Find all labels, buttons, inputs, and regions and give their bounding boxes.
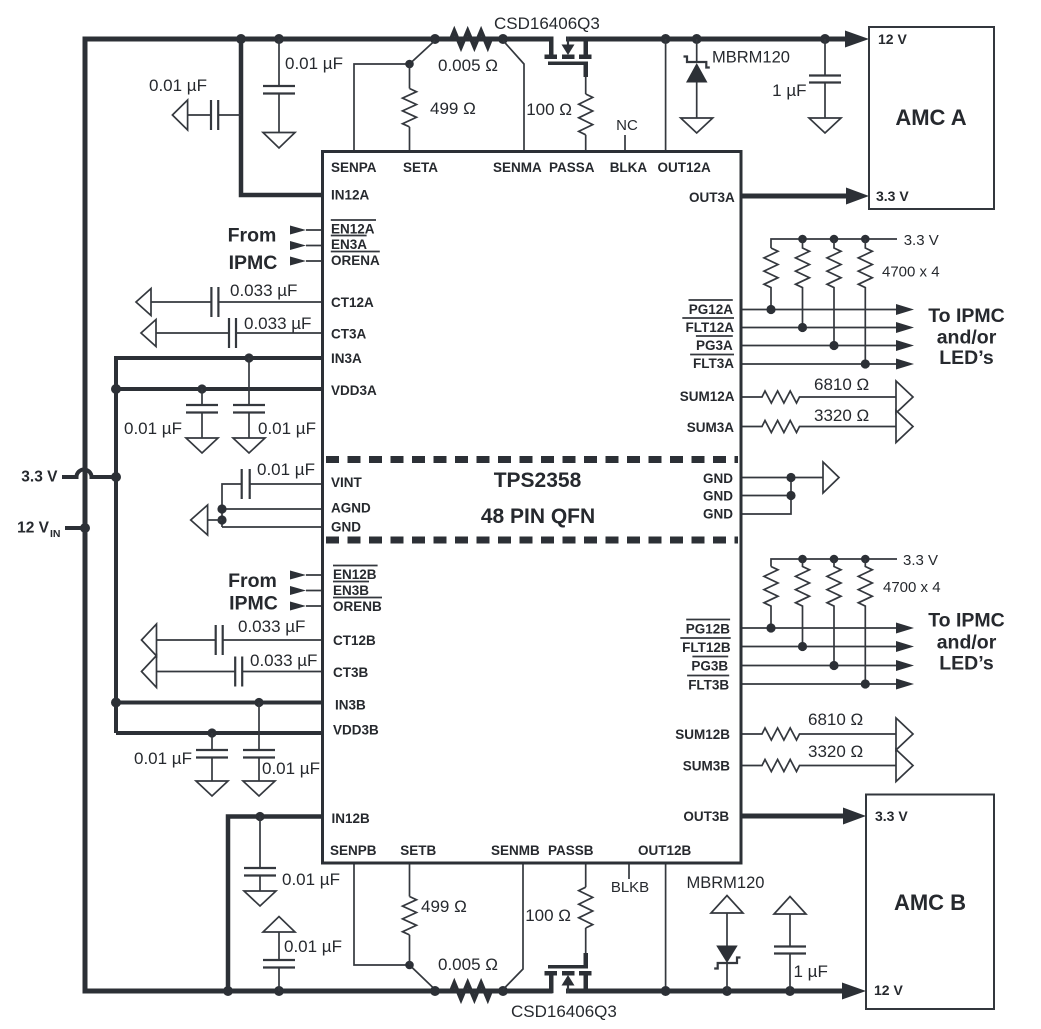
node junction on top bus at bypass cap <box>274 34 284 44</box>
divider dashed line (upper) <box>326 456 738 463</box>
svg-text:NC: NC <box>616 117 638 134</box>
divider dashed line (lower) <box>326 537 738 544</box>
ground below VDD3A cap <box>186 438 218 453</box>
node junction FLT3B pullup <box>861 679 870 688</box>
svg-text:0.01 µF: 0.01 µF <box>285 54 343 73</box>
node junction pullup4 top (A) <box>861 235 870 244</box>
arrow open SUM12A <box>896 381 913 413</box>
svg-text:499 Ω: 499 Ω <box>421 897 467 916</box>
wire FLT3B row <box>741 683 897 685</box>
wire SUM12A row with 6810 resistor <box>741 391 896 403</box>
transistor Q1 CSD16406Q3 (top FET) <box>545 37 592 78</box>
svg-text:1 µF: 1 µF <box>794 962 828 981</box>
arrow open up above bottom 0.01uF cap <box>263 917 295 933</box>
capacitor 0.01uF on IN3A <box>233 358 265 438</box>
arrow open SUM12B <box>896 718 913 750</box>
wire SENPB sense tap: drop, horizontal, diagonal <box>354 863 435 990</box>
wire 12V bottom bus from FET to AMC B <box>566 989 843 994</box>
wire SUM12B row with 6810 resistor <box>741 728 896 740</box>
AMC A box <box>869 27 994 209</box>
svg-text:CT12B: CT12B <box>333 633 376 648</box>
resistor 4700 pullup 2 (B) <box>796 559 810 647</box>
diode D2 MBRM120 (B side schottky) <box>714 913 740 991</box>
svg-text:IPMC: IPMC <box>229 593 278 615</box>
svg-text:SENMA: SENMA <box>493 160 542 175</box>
node junction FLT3A pullup <box>861 359 870 368</box>
svg-text:0.01 µF: 0.01 µF <box>257 460 315 479</box>
wire BLKA NC stub <box>624 135 626 151</box>
node junction IN12B cap tap <box>255 812 264 821</box>
node junction pullup2 top (B) <box>798 555 807 564</box>
svg-text:OUT3B: OUT3B <box>683 809 729 824</box>
capacitor 0.01uF on VINT <box>222 469 323 527</box>
transistor Q2 CSD16406Q3 (bottom FET) <box>545 953 592 994</box>
arrow open left CT3A <box>141 320 156 347</box>
wire OUT3A to AMC A <box>741 194 847 199</box>
svg-text:To IPMC: To IPMC <box>928 610 1005 632</box>
capacitor 0.01uF on VDD3A <box>186 389 218 438</box>
svg-text:MBRM120: MBRM120 <box>712 49 790 67</box>
arrow FLT3B to IPMC <box>896 679 914 690</box>
wire FET gate to 100 ohm (A) <box>585 77 587 94</box>
resistor 100 ohm (B) <box>579 863 593 928</box>
svg-text:and/or: and/or <box>937 632 997 654</box>
svg-text:12 V: 12 V <box>17 520 50 537</box>
wire IN12B from pin to bottom bus <box>228 817 323 992</box>
node junction 12V rail at input <box>80 523 90 533</box>
svg-text:MBRM120: MBRM120 <box>687 874 765 892</box>
wire EN3B <box>306 590 323 592</box>
wire VDD3B <box>116 731 323 735</box>
svg-text:ORENB: ORENB <box>333 599 382 614</box>
resistor 0.005 ohm (A side sense) <box>451 31 491 47</box>
node junction on top bus right end of 0.005 ohm <box>498 34 508 44</box>
wire OUT3B to AMC B <box>741 814 844 819</box>
svg-text:FLT12B: FLT12B <box>682 640 731 655</box>
svg-text:SETA: SETA <box>403 160 438 175</box>
wire PG12B row <box>741 627 897 629</box>
wire IN3B <box>116 701 323 705</box>
node junction on top bus at IN12A feed <box>236 34 246 44</box>
wire GND row 1 <box>741 477 823 479</box>
arrow FLT3A to IPMC <box>896 359 914 370</box>
op-amp U1 TPS2358 IC body <box>323 152 742 864</box>
svg-text:0.033 µF: 0.033 µF <box>250 651 317 670</box>
resistor 4700 pullup 4 (A) <box>858 239 872 364</box>
svg-text:From: From <box>228 225 277 247</box>
svg-text:OUT3A: OUT3A <box>689 190 735 205</box>
node junction IN12B on bottom bus <box>223 986 233 996</box>
svg-text:0.01 µF: 0.01 µF <box>262 759 320 778</box>
node junction PG12B pullup <box>766 623 775 632</box>
svg-text:0.01 µF: 0.01 µF <box>124 419 182 438</box>
node junction bottom bus at bypass cap <box>274 986 284 996</box>
resistor 499 ohm (B) <box>403 863 417 965</box>
resistor 4700 pullup 4 (B) <box>858 559 872 684</box>
node junction pullup2 top (A) <box>798 235 807 244</box>
svg-text:CT3A: CT3A <box>331 327 367 342</box>
svg-text:PG3B: PG3B <box>691 659 728 674</box>
node junction IN3B on rail <box>111 698 121 708</box>
ground below MBRM120 (A) <box>681 118 713 133</box>
arrow open left on top-left 0.01uF cap <box>172 100 187 130</box>
node junction SETB/SENPB tap <box>405 961 414 970</box>
svg-text:0.01 µF: 0.01 µF <box>258 419 316 438</box>
node junction top bus at MBRM120 <box>692 34 702 44</box>
capacitor 1uF (B) <box>774 914 806 991</box>
arrow From IPMC EN12B <box>290 571 306 580</box>
svg-text:OUT12B: OUT12B <box>638 843 692 858</box>
capacitor 0.033uF on CT12B <box>157 625 323 655</box>
svg-text:OUT12A: OUT12A <box>658 160 712 175</box>
arrow From IPMC EN12A <box>290 226 306 235</box>
capacitor 0.033uF on CT12A <box>151 287 323 317</box>
wire PG12A row <box>741 309 897 311</box>
node junction VDD3A on rail <box>111 384 121 394</box>
arrow open SUM3A <box>896 411 913 443</box>
svg-text:PASSB: PASSB <box>548 843 594 858</box>
wire EN12B <box>306 574 323 576</box>
resistor 100 ohm (A) <box>579 94 593 151</box>
svg-text:BLKB: BLKB <box>611 879 649 896</box>
ground below VDD3B cap <box>196 781 228 796</box>
node junction bottom bus at MBRM120 <box>722 986 732 996</box>
svg-text:To IPMC: To IPMC <box>928 305 1005 327</box>
svg-text:3.3 V: 3.3 V <box>903 552 938 569</box>
node junction pullup4 top (B) <box>861 555 870 564</box>
capacitor 0.033uF on CT3A <box>156 318 323 348</box>
node junction PG3A pullup <box>829 341 838 350</box>
resistor 4700 pullup 3 (A) <box>827 239 841 346</box>
wire PG3A row <box>741 345 897 347</box>
svg-text:0.005 Ω: 0.005 Ω <box>438 955 498 974</box>
svg-text:FLT12A: FLT12A <box>685 320 734 335</box>
svg-text:3.3 V: 3.3 V <box>876 188 909 204</box>
diode D1 MBRM120 (A side schottky) <box>684 39 710 118</box>
svg-text:TPS2358: TPS2358 <box>494 469 582 492</box>
svg-text:BLKA: BLKA <box>610 160 648 175</box>
wire FET gate to 100 ohm (B) <box>585 928 587 953</box>
wire SENMB sense tap drop and diagonal <box>503 863 523 990</box>
svg-text:12 V: 12 V <box>874 982 903 998</box>
svg-text:EN3A: EN3A <box>331 237 367 252</box>
arrow From IPMC EN3A <box>290 241 306 250</box>
wire AGND <box>222 508 323 510</box>
svg-text:0.01 µF: 0.01 µF <box>149 76 207 95</box>
resistor 4700 pullup 3 (B) <box>827 559 841 666</box>
wire SENMA sense tap diagonal and drop <box>503 41 524 152</box>
arrow FLT12B to IPMC <box>896 641 914 652</box>
node junction GND rows 2-3 <box>786 491 795 500</box>
arrow open GND <box>823 462 839 493</box>
svg-text:CSD16406Q3: CSD16406Q3 <box>494 14 600 33</box>
node junction bottom bus right end of 0.005 ohm <box>498 986 508 996</box>
node junction PG3B pullup <box>829 661 838 670</box>
svg-text:VINT: VINT <box>331 475 363 490</box>
node junction IN3B cap tap <box>254 698 263 707</box>
arrow open SUM3B <box>896 750 913 782</box>
arrow FLT12A to IPMC <box>896 322 914 333</box>
node junction top bus at OUT12A <box>661 34 671 44</box>
arrow From IPMC ORENB <box>290 602 306 611</box>
arrow OUT3B into AMC B <box>843 808 866 825</box>
svg-text:CSD16406Q3: CSD16406Q3 <box>511 1002 617 1021</box>
svg-text:VDD3A: VDD3A <box>331 383 377 398</box>
svg-text:6810 Ω: 6810 Ω <box>814 375 869 394</box>
node junction pullup3 top (B) <box>830 555 839 564</box>
svg-text:0.01 µF: 0.01 µF <box>134 749 192 768</box>
wire ORENB <box>306 605 323 607</box>
svg-text:ORENA: ORENA <box>331 253 380 268</box>
wire SUM3B row with 3320 resistor <box>741 760 896 772</box>
svg-text:SETB: SETB <box>400 843 436 858</box>
node junction analog ground arrow <box>217 515 226 524</box>
node junction GND rows 1-2 <box>786 473 795 482</box>
svg-text:FLT3A: FLT3A <box>693 356 734 371</box>
wire to ground arrow <box>208 519 222 521</box>
svg-text:EN12B: EN12B <box>333 567 377 582</box>
wire 3.3V pullup rail (A) <box>771 239 897 248</box>
svg-text:3.3 V: 3.3 V <box>875 808 908 824</box>
node junction VDD3B cap tap <box>207 728 216 737</box>
ground below IN3B cap <box>243 781 275 796</box>
svg-text:3.3 V: 3.3 V <box>904 232 939 249</box>
wire SENPA sense tap: diagonal, horizontal, drop to pin <box>354 41 435 152</box>
wire ORENA <box>306 260 323 262</box>
node junction bottom bus at 1uF <box>785 986 795 996</box>
svg-text:From: From <box>228 570 277 592</box>
arrow open left AGND/GND <box>191 505 208 535</box>
node junction IN3A cap tap <box>244 353 253 362</box>
arrow From IPMC ORENA <box>290 257 306 266</box>
svg-text:FLT3B: FLT3B <box>688 677 729 692</box>
wire FLT12B row <box>741 646 897 648</box>
svg-text:0.005 Ω: 0.005 Ω <box>438 56 498 75</box>
wire FLT3A row <box>741 363 897 365</box>
arrow PG3A to IPMC <box>896 340 914 351</box>
wire 12V input stub <box>65 526 85 530</box>
node junction bottom bus at OUT12B <box>661 986 671 996</box>
arrow From IPMC EN3B <box>290 586 306 595</box>
node junction FLT12A pullup <box>798 323 807 332</box>
svg-text:0.01 µF: 0.01 µF <box>282 870 340 889</box>
wire 3.3V pullup rail (B) <box>771 559 897 567</box>
wire OUT12B from pin to bottom bus <box>665 863 667 991</box>
node junction SETA/SENPA tap <box>405 60 414 69</box>
wire PG3B row <box>741 665 897 667</box>
wire 12V bus: top segment, left rail, bottom segment <box>85 39 554 991</box>
wire IN12A from top bus to pin <box>241 39 323 195</box>
svg-text:SENPB: SENPB <box>330 843 377 858</box>
svg-text:SENPA: SENPA <box>331 160 377 175</box>
arrow open left CT3B <box>142 656 157 688</box>
arrow PG12A to IPMC <box>896 304 914 315</box>
arrow open up above 1uF (B) <box>774 897 806 915</box>
arrow OUT3A into AMC A <box>846 188 869 205</box>
svg-text:VDD3B: VDD3B <box>333 723 379 738</box>
svg-text:SUM12B: SUM12B <box>675 727 730 742</box>
wire VDD3A <box>116 387 323 391</box>
wire SUM3A row with 3320 resistor <box>741 421 896 433</box>
svg-text:EN3B: EN3B <box>333 583 369 598</box>
ground below 0.01uF top cap <box>263 133 295 149</box>
svg-text:PASSA: PASSA <box>549 160 595 175</box>
capacitor 0.01uF on IN3B <box>243 703 275 782</box>
svg-text:IPMC: IPMC <box>229 252 278 274</box>
svg-text:3320 Ω: 3320 Ω <box>808 742 863 761</box>
svg-text:0.033 µF: 0.033 µF <box>244 314 311 333</box>
svg-text:GND: GND <box>703 489 733 504</box>
svg-text:12 V: 12 V <box>878 31 907 47</box>
svg-text:100 Ω: 100 Ω <box>526 100 572 119</box>
arrow open up above MBRM120 (B) <box>711 896 743 914</box>
wire IN3A <box>116 356 323 358</box>
wire GND pin (left) <box>222 526 323 528</box>
svg-text:CT12A: CT12A <box>331 295 374 310</box>
svg-text:0.033 µF: 0.033 µF <box>238 617 305 636</box>
resistor 4700 pullup 1 (B) <box>764 567 778 629</box>
arrow open left CT12B <box>142 624 157 656</box>
node junction bottom bus left end of 0.005 ohm <box>430 986 440 996</box>
svg-text:499 Ω: 499 Ω <box>430 99 476 118</box>
svg-text:48 PIN QFN: 48 PIN QFN <box>481 505 595 528</box>
arrow 12V into AMC A <box>845 31 869 48</box>
svg-text:0.033 µF: 0.033 µF <box>230 281 297 300</box>
svg-text:3.3 V: 3.3 V <box>21 469 58 486</box>
wire 12V top bus from FET to AMC A <box>566 37 846 42</box>
capacitor 0.01uF (top-left horizontal, to IN12A line) <box>188 100 241 130</box>
wire 3.3V rail (x=116) <box>114 358 118 733</box>
svg-text:4700 x 4: 4700 x 4 <box>883 579 941 596</box>
wire GND row 3 <box>741 478 791 515</box>
svg-text:AGND: AGND <box>331 501 371 516</box>
resistor 4700 pullup 1 (A) <box>764 248 778 310</box>
svg-text:GND: GND <box>331 520 361 535</box>
node junction PG12A pullup <box>766 305 775 314</box>
capacitor 1uF (A) <box>809 39 841 118</box>
svg-text:PG3A: PG3A <box>696 338 733 353</box>
svg-text:LED’s: LED’s <box>939 347 994 369</box>
node junction pullup3 top (A) <box>830 235 839 244</box>
svg-text:GND: GND <box>703 471 733 486</box>
ground below IN3A cap <box>233 438 265 453</box>
wire EN3A <box>306 245 323 247</box>
arrow 12V into AMC B <box>842 983 866 1000</box>
svg-text:4700 x 4: 4700 x 4 <box>882 264 940 281</box>
capacitor 0.01uF (top, at x=279) <box>263 39 295 133</box>
wire GND row 2 <box>741 495 791 497</box>
svg-text:0.01 µF: 0.01 µF <box>284 937 342 956</box>
svg-text:1 µF: 1 µF <box>772 81 806 100</box>
svg-text:SENMB: SENMB <box>491 843 540 858</box>
AMC B box <box>866 795 994 1010</box>
svg-text:SUM3A: SUM3A <box>687 420 735 435</box>
ground below IN12B cap <box>244 891 276 906</box>
svg-text:IN: IN <box>50 528 61 540</box>
node junction on top bus left end of 0.005 ohm <box>430 34 440 44</box>
svg-text:EN12A: EN12A <box>331 222 375 237</box>
svg-text:GND: GND <box>703 507 733 522</box>
arrow PG12B to IPMC <box>896 623 914 634</box>
node junction 3.3V rail feed <box>111 472 121 482</box>
wire 3.3V input stub with hop over 12V rail <box>62 470 116 477</box>
svg-text:AMC B: AMC B <box>894 890 966 915</box>
capacitor 0.033uF on CT3B <box>157 657 323 687</box>
node junction AGND <box>217 504 226 513</box>
svg-text:IN12B: IN12B <box>332 811 371 826</box>
arrow PG3B to IPMC <box>896 660 914 671</box>
svg-text:SUM3B: SUM3B <box>683 759 731 774</box>
svg-text:AMC A: AMC A <box>895 105 966 130</box>
svg-text:CT3B: CT3B <box>333 665 369 680</box>
capacitor 0.01uF on VDD3B <box>196 733 228 781</box>
arrow open left CT12A <box>136 289 151 316</box>
resistor 4700 pullup 2 (A) <box>796 239 810 328</box>
capacitor 0.01uF on IN12B <box>244 817 276 892</box>
resistor 0.005 ohm (B side sense) <box>451 983 491 999</box>
svg-text:IN3A: IN3A <box>331 351 362 366</box>
wire FLT12A row <box>741 327 897 329</box>
svg-text:PG12B: PG12B <box>686 621 731 636</box>
node junction FLT12B pullup <box>798 642 807 651</box>
resistor 499 ohm (A) <box>403 64 417 151</box>
wire OUT12A from bus to pin <box>665 39 667 151</box>
svg-text:SUM12A: SUM12A <box>680 389 735 404</box>
capacitor 0.01uF (bottom, x=279) <box>263 932 295 991</box>
node junction VDD3A cap tap <box>197 384 206 393</box>
wire EN12A <box>306 229 323 231</box>
svg-text:3320 Ω: 3320 Ω <box>814 406 869 425</box>
svg-text:IN3B: IN3B <box>335 698 366 713</box>
svg-text:PG12A: PG12A <box>689 302 734 317</box>
svg-text:100 Ω: 100 Ω <box>525 906 571 925</box>
svg-text:LED’s: LED’s <box>939 653 994 675</box>
wire BLKB stub <box>628 863 630 879</box>
node junction top bus at 1uF <box>820 34 830 44</box>
svg-text:6810 Ω: 6810 Ω <box>808 710 863 729</box>
svg-text:and/or: and/or <box>937 327 997 349</box>
svg-text:IN12A: IN12A <box>331 188 370 203</box>
ground below 1uF (A) <box>809 118 841 133</box>
